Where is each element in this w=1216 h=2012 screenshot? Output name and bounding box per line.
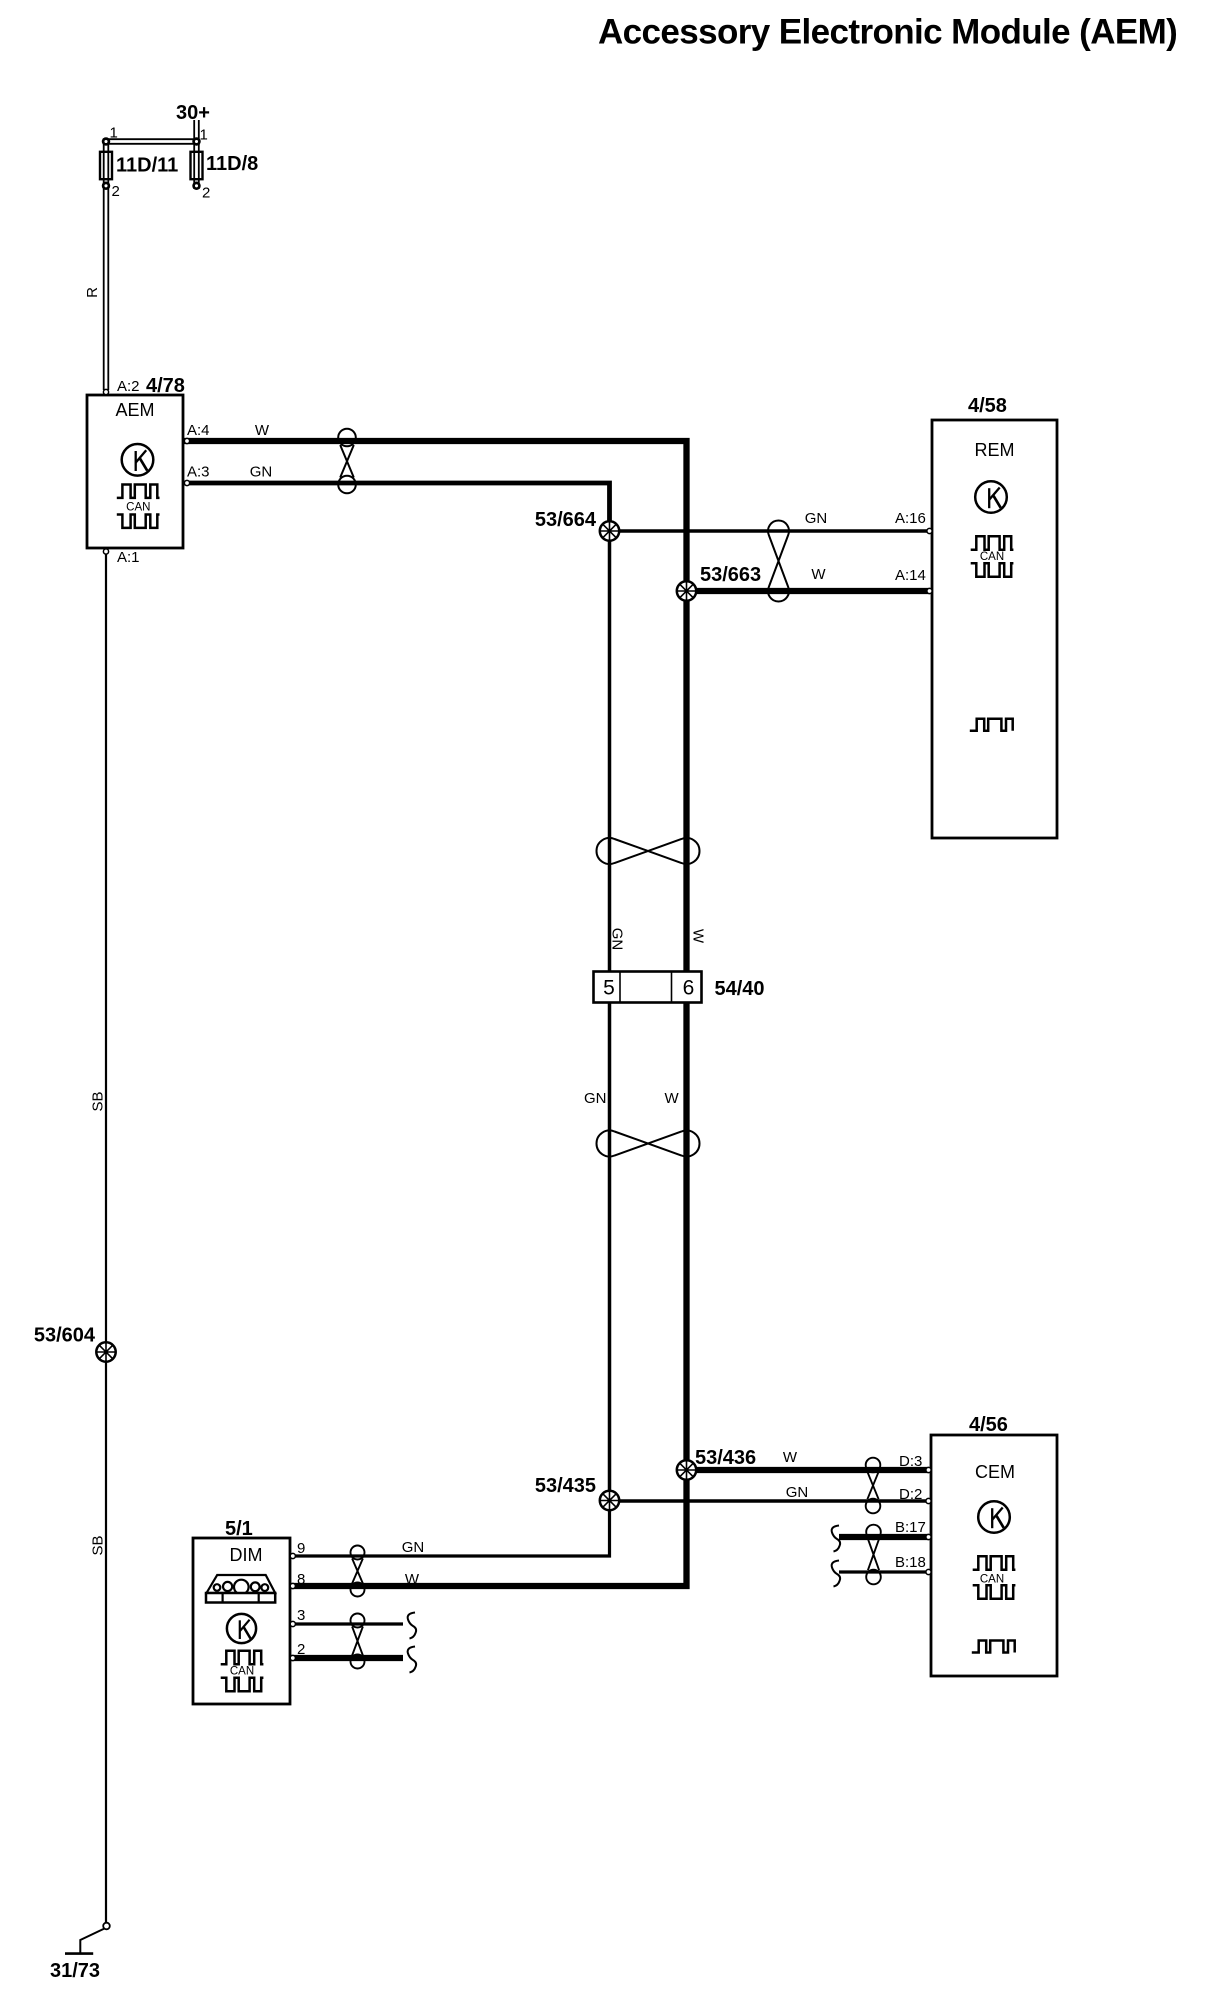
pin 1 of fuse 11D/8 [194, 127, 208, 145]
splice 53/435 [535, 1475, 619, 1510]
wire end squiggle (DIM pin 3) [408, 1613, 416, 1639]
splice 53/604 [34, 1325, 116, 1362]
svg-text:CAN: CAN [980, 551, 1004, 563]
fuse 11D/11 [100, 152, 178, 179]
serial line symbol (REM) [970, 719, 1013, 731]
wire W: AEM A:4 right and down to splice 53/663 [183, 441, 687, 591]
pin A:1 (AEM) [103, 549, 108, 554]
svg-text:W: W [811, 566, 826, 583]
svg-text:CEM: CEM [975, 1462, 1015, 1482]
pin 2 (DIM) [290, 1655, 295, 1660]
svg-text:CAN: CAN [230, 1666, 254, 1678]
wire SB: AEM A:1 to ground 31/73 [105, 552, 107, 1923]
pin 8 (DIM) [290, 1583, 295, 1588]
pin A:2 (AEM) [103, 389, 108, 394]
twisted pair symbol (REM A:16/A:14 wires) [768, 520, 789, 601]
pin B:18 (CEM) [926, 1569, 931, 1574]
K symbol (AEM) [122, 444, 154, 476]
wire W: splice 53/663 to REM A:14 [687, 588, 931, 594]
svg-text:53/663: 53/663 [700, 564, 761, 586]
pin A:4 (AEM) [184, 438, 189, 443]
svg-text:A:4: A:4 [187, 422, 210, 439]
svg-text:CAN: CAN [126, 502, 150, 514]
wire W: connector 54/40 pin 6 down to splice 53/436 [683, 1003, 689, 1471]
svg-text:W: W [783, 1449, 798, 1466]
pin 1 of fuse 11D/11 [103, 125, 118, 145]
wire W: splice 53/663 down to connector 54/40 pin 6 [683, 591, 689, 972]
pin 9 (DIM) [290, 1553, 295, 1558]
splice 53/436 [677, 1447, 756, 1480]
wire GN: connector 54/40 pin 5 down to splice 53/435 [608, 1003, 612, 1501]
serial line symbol (CEM) [972, 1641, 1015, 1653]
CAN symbol (REM) [971, 536, 1014, 576]
svg-text:D:3: D:3 [899, 1453, 922, 1470]
K symbol (REM) [975, 481, 1007, 513]
CAN symbol (AEM) [117, 485, 160, 528]
wire: DIM pin 2 stub [290, 1655, 403, 1661]
module DIM 5/1 [193, 1518, 305, 1704]
svg-text:SB: SB [90, 1091, 107, 1111]
pin A:3 (AEM) [184, 480, 189, 485]
svg-text:SB: SB [90, 1535, 107, 1555]
wire GN: splice 53/664 down to connector 54/40 pin 5 [608, 531, 612, 972]
splice 53/663 [677, 564, 761, 601]
svg-text:30+: 30+ [176, 102, 210, 124]
pin 3 (DIM) [290, 1621, 295, 1626]
twisted pair symbol (vertical GN/W pair, upper) [597, 838, 700, 864]
svg-text:DIM: DIM [230, 1545, 263, 1565]
svg-text:5/1: 5/1 [225, 1518, 253, 1540]
svg-text:4/56: 4/56 [969, 1414, 1008, 1436]
svg-text:A:3: A:3 [187, 464, 210, 481]
svg-text:CAN: CAN [980, 1574, 1004, 1586]
pin A:14 (REM) [927, 588, 932, 593]
twisted pair symbol (AEM A:4/A:3 wires) [338, 429, 356, 494]
svg-text:2: 2 [297, 1641, 305, 1658]
svg-text:B:18: B:18 [895, 1554, 926, 1571]
svg-text:6: 6 [683, 977, 695, 1000]
wire end squiggle (CEM B:18) [832, 1561, 840, 1587]
K symbol (CEM) [978, 1501, 1010, 1533]
svg-text:W: W [665, 1090, 680, 1107]
svg-text:AEM: AEM [115, 400, 154, 420]
module CEM 4/56 [895, 1414, 1057, 1676]
svg-text:11D/11: 11D/11 [116, 155, 178, 177]
svg-text:2: 2 [112, 183, 120, 200]
wire: 30+ feed double-line (30+ down, across, down through fuse 11D/11 to AEM A:2) [106, 120, 197, 390]
pin D:2 (CEM) [926, 1498, 931, 1503]
wire GN: splice 53/435 down and left to DIM pin 9 [290, 1501, 610, 1557]
K symbol (DIM) [227, 1614, 256, 1643]
pin 2 of fuse 11D/8 [194, 183, 211, 202]
wire: CEM B:17 stub [839, 1534, 929, 1540]
svg-text:REM: REM [975, 440, 1015, 460]
fuse 11D/8 [191, 152, 259, 179]
wire W: splice 53/436 down and left to DIM pin 8 [290, 1470, 687, 1586]
svg-text:D:2: D:2 [899, 1486, 922, 1503]
svg-text:1: 1 [200, 127, 208, 144]
svg-text:53/435: 53/435 [535, 1475, 596, 1497]
svg-text:54/40: 54/40 [715, 978, 765, 1000]
wire end squiggle (DIM pin 2) [408, 1647, 416, 1673]
wire GN: splice 53/664 to REM A:16 [610, 529, 931, 533]
svg-text:31/73: 31/73 [50, 1960, 100, 1982]
svg-text:R: R [84, 287, 101, 298]
module REM 4/58 [895, 395, 1057, 838]
svg-text:GN: GN [584, 1090, 607, 1107]
svg-text:W: W [690, 929, 707, 944]
wire end squiggle (CEM B:17) [832, 1526, 840, 1552]
svg-text:GN: GN [609, 928, 626, 951]
svg-text:GN: GN [402, 1539, 425, 1556]
svg-text:A:2: A:2 [117, 378, 140, 395]
svg-text:11D/8: 11D/8 [206, 153, 258, 175]
twisted pair symbol (DIM pins 9/8 wires) [351, 1546, 365, 1597]
CAN symbol (DIM) [221, 1651, 264, 1691]
svg-text:A:1: A:1 [117, 549, 140, 566]
twisted pair symbol (DIM pins 3/2 wires) [351, 1614, 365, 1669]
twisted pair symbol (CEM B:17/B:18 wires) [866, 1525, 881, 1585]
svg-text:W: W [405, 1571, 420, 1588]
svg-text:GN: GN [786, 1484, 809, 1501]
splice 53/664 [535, 509, 619, 541]
svg-text:1: 1 [110, 125, 118, 142]
svg-text:53/436: 53/436 [695, 1447, 756, 1469]
wire W: splice 53/436 to CEM D:3 [687, 1467, 930, 1473]
CAN symbol (CEM) [973, 1556, 1016, 1598]
wire GN: splice 53/435 to CEM D:2 [610, 1499, 930, 1503]
svg-text:53/604: 53/604 [34, 1325, 96, 1347]
svg-text:2: 2 [202, 185, 210, 202]
svg-text:GN: GN [805, 510, 828, 527]
svg-text:3: 3 [297, 1607, 305, 1624]
wire: CEM B:18 stub [839, 1570, 929, 1573]
pin D:3 (CEM) [926, 1467, 931, 1472]
wire GN: AEM A:3 right and down to splice 53/664 [183, 483, 610, 531]
pin 2 of fuse 11D/11 [103, 183, 120, 200]
svg-text:A:14: A:14 [895, 567, 926, 584]
svg-text:W: W [255, 422, 270, 439]
svg-text:A:16: A:16 [895, 510, 926, 527]
svg-text:5: 5 [603, 977, 615, 1000]
module AEM 4/78 [87, 375, 210, 566]
svg-text:4/58: 4/58 [968, 395, 1007, 417]
svg-text:8: 8 [297, 1571, 305, 1588]
svg-text:B:17: B:17 [895, 1519, 926, 1536]
svg-text:4/78: 4/78 [146, 375, 185, 397]
pin A:16 (REM) [927, 528, 932, 533]
svg-text:9: 9 [297, 1540, 305, 1557]
connector 54/40 [594, 972, 765, 1003]
twisted pair symbol (CEM D:3/D:2 wires) [866, 1458, 881, 1514]
twisted pair symbol (vertical GN/W pair, lower) [597, 1131, 700, 1157]
wire: DIM pin 3 stub [290, 1622, 403, 1625]
svg-text:Accessory Electronic Module (A: Accessory Electronic Module (AEM) [598, 13, 1177, 52]
svg-text:GN: GN [250, 464, 273, 481]
instrument cluster symbol (DIM) [206, 1575, 275, 1603]
ground 31/73 [50, 1923, 110, 1982]
pin B:17 (CEM) [926, 1534, 931, 1539]
svg-text:53/664: 53/664 [535, 509, 597, 531]
